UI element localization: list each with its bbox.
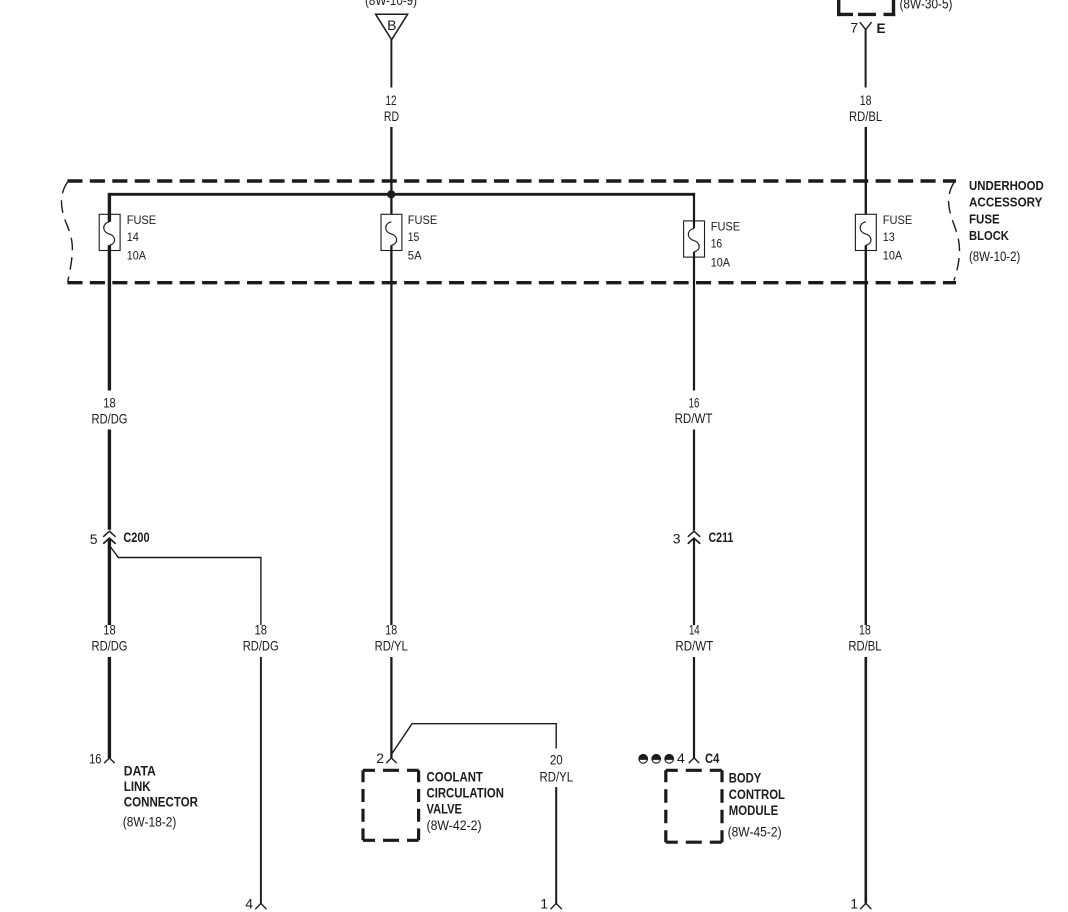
svg-text:14: 14 [689, 622, 700, 638]
svg-text:16: 16 [89, 751, 102, 767]
svg-text:RD/BL: RD/BL [849, 108, 882, 124]
wire 12 RD to bus [390, 127, 392, 214]
svg-text:FUSE: FUSE [408, 213, 438, 227]
wire to C200 [108, 430, 111, 530]
wire fuse 15 down [390, 245, 392, 625]
wire C200 down [108, 538, 111, 625]
branch wire to 20 RD/YL [392, 724, 556, 754]
svg-text:(8W-45-2): (8W-45-2) [728, 824, 782, 840]
wire fuse 13 down [865, 245, 867, 625]
svg-text:RD/WT: RD/WT [675, 638, 713, 654]
svg-text:1: 1 [850, 896, 858, 912]
svg-text:FUSE: FUSE [127, 213, 157, 227]
wire to coolant valve pin 2 [390, 657, 392, 758]
wire 20 RD/YL down to pin 1 [555, 787, 557, 903]
fuse block right torn bracket [949, 183, 960, 281]
junction dot [387, 190, 395, 198]
svg-text:LINK: LINK [124, 779, 151, 794]
bus wire inside fuse block [108, 193, 695, 196]
svg-text:B: B [387, 17, 396, 33]
svg-text:4: 4 [677, 750, 685, 766]
svg-text:RD/DG: RD/DG [92, 411, 128, 427]
svg-text:BLOCK: BLOCK [969, 228, 1009, 243]
wire E to label 18 RD/BL [865, 30, 867, 88]
wire fuse 16 down [693, 252, 695, 391]
svg-text:RD/YL: RD/YL [375, 638, 408, 654]
wire C211 down [693, 538, 695, 625]
svg-text:20: 20 [550, 752, 563, 768]
svg-text:C4: C4 [705, 751, 720, 766]
branch wire down to pin 4 [260, 657, 262, 903]
svg-text:10A: 10A [883, 249, 902, 263]
fuse block left torn bracket [61, 182, 72, 282]
svg-text:UNDERHOOD: UNDERHOOD [969, 178, 1044, 193]
svg-text:(8W-10-2): (8W-10-2) [969, 248, 1020, 264]
svg-text:FUSE: FUSE [883, 213, 913, 227]
svg-text:BODY: BODY [729, 771, 762, 786]
body control module dashed box [666, 769, 722, 772]
svg-text:(8W-10-9): (8W-10-9) [365, 0, 417, 8]
svg-text:15: 15 [408, 230, 420, 244]
wire fuse 14 down [108, 245, 111, 390]
svg-text:E: E [877, 21, 886, 36]
svg-text:18: 18 [385, 622, 397, 638]
svg-text:18: 18 [103, 395, 116, 411]
svg-text:DATA: DATA [124, 763, 156, 778]
svg-text:CONNECTOR: CONNECTOR [124, 795, 198, 810]
svg-text:16: 16 [711, 237, 723, 251]
svg-text:13: 13 [883, 230, 895, 244]
fuse 15 [381, 214, 402, 250]
svg-text:3: 3 [673, 531, 681, 547]
svg-text:18: 18 [860, 92, 872, 108]
svg-text:4: 4 [245, 896, 253, 912]
coolant circulation valve dashed box [363, 769, 419, 772]
svg-text:ACCESSORY: ACCESSORY [969, 194, 1043, 209]
svg-text:7: 7 [850, 20, 858, 36]
svg-text:RD: RD [384, 108, 399, 124]
connector box (8W-30-5) top right [837, 0, 840, 16]
svg-text:(8W-30-5): (8W-30-5) [900, 0, 953, 11]
svg-text:18: 18 [103, 622, 116, 638]
svg-text:CIRCULATION: CIRCULATION [427, 786, 504, 801]
svg-text:RD/DG: RD/DG [92, 638, 128, 654]
fuse 16 [684, 221, 705, 257]
wire B to label 12 RD [390, 40, 392, 88]
wire bus to fuse 14 [108, 193, 111, 222]
svg-text:18: 18 [254, 622, 267, 638]
branch wire to second RD/DG [110, 547, 261, 626]
svg-text:C211: C211 [709, 530, 734, 545]
wire to data link connector [108, 657, 111, 758]
svg-text:10A: 10A [711, 255, 730, 269]
svg-text:COOLANT: COOLANT [427, 769, 484, 784]
wire to BCM pin 4 [693, 657, 695, 758]
underhood accessory fuse block dashed box bottom edge [67, 281, 956, 284]
svg-text:RD/DG: RD/DG [243, 638, 279, 654]
svg-text:16: 16 [689, 395, 700, 411]
svg-text:FUSE: FUSE [711, 220, 741, 234]
svg-text:10A: 10A [127, 249, 146, 263]
svg-text:5: 5 [90, 531, 98, 547]
fuse 14 [99, 214, 120, 250]
svg-text:C200: C200 [123, 530, 149, 545]
svg-text:18: 18 [859, 622, 871, 638]
svg-text:FUSE: FUSE [969, 211, 1000, 226]
underhood accessory fuse block dashed box top edge [67, 179, 956, 182]
svg-text:RD/YL: RD/YL [540, 769, 574, 785]
svg-text:CONTROL: CONTROL [729, 787, 785, 802]
svg-text:2: 2 [376, 750, 384, 766]
svg-text:VALVE: VALVE [427, 801, 462, 816]
three splice dots [639, 754, 674, 763]
svg-text:RD/WT: RD/WT [675, 410, 713, 426]
wire bus to fuse 16 [693, 193, 695, 229]
svg-text:(8W-18-2): (8W-18-2) [123, 813, 177, 829]
fuse 13 [855, 214, 876, 250]
svg-text:1: 1 [540, 896, 548, 912]
wire down to pin 1 bottom right [864, 657, 867, 903]
node B triangle [376, 14, 408, 40]
svg-text:5A: 5A [408, 249, 422, 263]
svg-text:MODULE: MODULE [729, 803, 778, 818]
svg-text:(8W-42-2): (8W-42-2) [427, 817, 482, 833]
svg-text:12: 12 [385, 92, 396, 108]
svg-text:RD/BL: RD/BL [848, 638, 881, 654]
wire 18 RD/BL to fuse 13 [865, 127, 867, 214]
svg-text:14: 14 [127, 230, 139, 244]
wire to C211 [693, 430, 695, 531]
